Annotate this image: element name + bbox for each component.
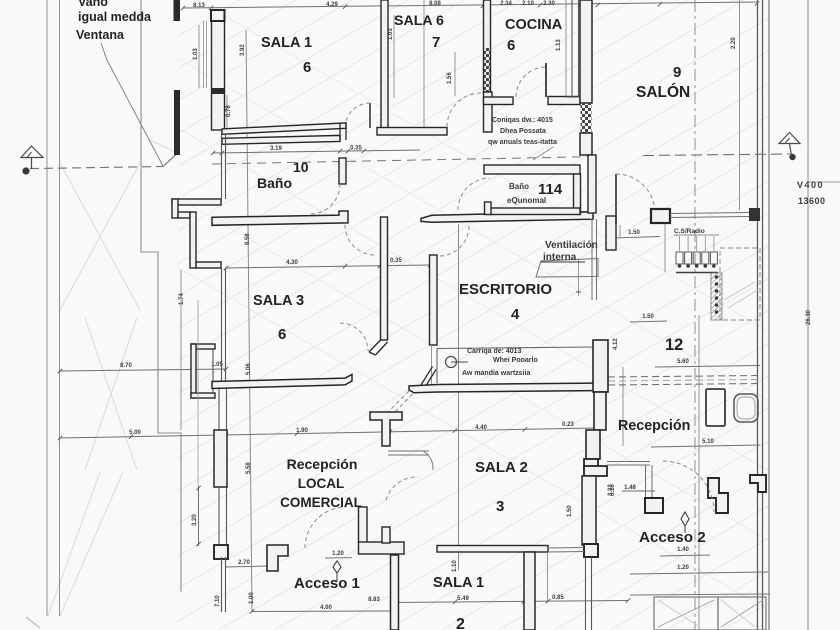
svg-text:V400: V400 (797, 180, 824, 190)
svg-text:7: 7 (432, 34, 440, 51)
svg-text:1.50: 1.50 (628, 230, 640, 236)
dashed closet rect (720, 248, 760, 320)
left niche at local corner (191, 344, 215, 349)
svg-text:Recepción: Recepción (287, 456, 358, 472)
svg-text:1.03: 1.03 (388, 28, 394, 40)
acceso1 left wall piece (267, 545, 288, 571)
G circle in storage box (446, 357, 457, 368)
acceso2 door swing (663, 461, 714, 512)
svg-text:4.12: 4.12 (613, 338, 619, 350)
bano right wall piece (339, 158, 346, 184)
bano top wall (222, 135, 340, 144)
salon door leaf and swing (615, 174, 617, 224)
svg-text:1.20: 1.20 (332, 551, 344, 557)
svg-text:Dhea Possata: Dhea Possata (500, 128, 546, 135)
cocina bottom wall right part (548, 97, 580, 105)
hall corner L block (584, 459, 598, 469)
escritorio left thin line (458, 224, 460, 570)
sala3 door swing (345, 225, 375, 255)
svg-text:8.83: 8.83 (368, 597, 380, 603)
recepcion rounded seat (734, 394, 758, 422)
bano top dimension line (213, 150, 420, 153)
salon bottom: pillar right (749, 208, 760, 221)
svg-text:0.85: 0.85 (552, 595, 564, 601)
corridor vertical wall with chamfer (381, 217, 388, 340)
bottom window boxes (654, 597, 718, 630)
sala2 top wall (409, 383, 607, 393)
svg-text:COCINA: COCINA (505, 17, 563, 33)
acceso dims (325, 557, 352, 559)
svg-text:3.33: 3.33 (608, 484, 614, 496)
svg-text:COMERCIAL: COMERCIAL (280, 495, 362, 510)
svg-text:8.70: 8.70 (120, 363, 132, 369)
svg-text:SALA 1: SALA 1 (433, 575, 484, 591)
corridor corner step below salon (606, 216, 616, 250)
svg-text:Coniqas dw.: 4015: Coniqas dw.: 4015 (492, 117, 553, 124)
acceso1 diamond (333, 561, 341, 573)
svg-text:2: 2 (456, 616, 465, 630)
recepcion right dims (655, 366, 760, 368)
mid dimension line y370 (60, 369, 226, 371)
svg-text:2.10: 2.10 (522, 1, 534, 7)
svg-text:Whei Pooarlo: Whei Pooarlo (493, 357, 538, 364)
svg-text:8.13: 8.13 (193, 3, 205, 9)
svg-text:3.92: 3.92 (240, 44, 246, 56)
svg-text:3: 3 (496, 498, 504, 515)
svg-text:1.13: 1.13 (556, 39, 562, 51)
svg-text:8.08: 8.08 (429, 1, 441, 7)
tree/section symbol right (779, 133, 800, 144)
svg-text:0.35: 0.35 (390, 258, 402, 264)
svg-text:Baño: Baño (257, 175, 292, 191)
svg-text:interna: interna (543, 252, 577, 263)
svg-text:SALA 2: SALA 2 (475, 459, 528, 476)
svg-text:1.74: 1.74 (179, 293, 185, 305)
central vertical dimension line (246, 30, 252, 612)
svg-text:Recepción: Recepción (618, 418, 690, 434)
svg-text:6: 6 (303, 59, 311, 76)
svg-text:LOCAL: LOCAL (298, 476, 345, 491)
tree/section symbol left (21, 146, 43, 158)
bottom dims (392, 601, 628, 603)
acceso2 corner jamb (750, 475, 766, 492)
svg-text:5.06: 5.06 (246, 363, 252, 375)
svg-text:Vano: Vano (78, 0, 108, 9)
svg-text:Ventilación: Ventilación (545, 240, 598, 251)
svg-text:igual medda: igual medda (78, 10, 152, 24)
right boundary verticals (739, 0, 741, 210)
yard construction lines (60, 163, 140, 310)
long dimension line y437 (60, 428, 595, 438)
svg-text:1.90: 1.90 (296, 428, 308, 434)
beam dashed lines recepcion (608, 376, 760, 378)
svg-text:10: 10 (293, 159, 309, 175)
leader line top-left (101, 43, 163, 166)
svg-text:1.03: 1.03 (193, 48, 199, 60)
acceso2 S jamb (708, 478, 728, 513)
entry door swing local (305, 507, 346, 548)
pillar below sala2 (584, 544, 598, 557)
sala2 bottom wall (437, 546, 548, 553)
cocina left wall (484, 0, 491, 92)
hall door dashed leaf (386, 391, 409, 414)
recepcion desk (706, 389, 725, 426)
hall T-jamb (370, 412, 402, 446)
svg-text:SALA 6: SALA 6 (394, 13, 444, 29)
svg-text:4.00: 4.00 (320, 605, 332, 611)
sala2 right wall (593, 340, 608, 392)
balcony bars outside (174, 0, 181, 21)
svg-text:5.58: 5.58 (246, 462, 252, 474)
sala6 door swing (447, 93, 481, 127)
svg-text:1.50: 1.50 (567, 505, 573, 517)
corridor wall upper (bano bottom) (212, 211, 348, 225)
svg-text:7.10: 7.10 (215, 595, 221, 607)
sala1 bottom wall (222, 123, 346, 134)
sala3 bottom wall pointed (212, 375, 352, 389)
svg-text:eQunomal: eQunomal (507, 196, 546, 205)
svg-text:ESCRITORIO: ESCRITORIO (459, 281, 552, 298)
svg-text:2.20: 2.20 (731, 37, 737, 49)
sala1 left exterior wall (212, 21, 225, 130)
svg-text:3.19: 3.19 (270, 146, 282, 152)
svg-text:5.49: 5.49 (457, 596, 469, 602)
svg-text:13600: 13600 (798, 196, 826, 206)
acceso2 pillar (645, 498, 663, 513)
cocina left dim vertical (454, 52, 456, 96)
svg-text:12: 12 (665, 336, 683, 354)
svg-text:2.34: 2.34 (500, 1, 512, 7)
svg-text:C.S/Radio: C.S/Radio (674, 228, 705, 235)
room 114 walls (484, 165, 580, 174)
svg-text:5.00: 5.00 (129, 430, 141, 436)
svg-text:SALA 1: SALA 1 (261, 35, 312, 51)
svg-text:2.70: 2.70 (238, 560, 250, 566)
acceso1 right wall piece (359, 507, 368, 543)
vent shaft parallelogram (536, 259, 598, 278)
left balcony niche walls (172, 199, 221, 205)
svg-text:Ventana: Ventana (76, 28, 125, 42)
cocina left wall lower corner (484, 92, 493, 132)
svg-text:0.35: 0.35 (350, 146, 362, 152)
left wall mid segment (221, 130, 223, 199)
svg-text:SALA 3: SALA 3 (253, 293, 304, 309)
svg-text:Acceso 2: Acceso 2 (639, 529, 706, 546)
svg-text:4: 4 (511, 306, 520, 323)
svg-text:2.30: 2.30 (543, 1, 555, 7)
radiator row (676, 272, 718, 274)
svg-text:0.23: 0.23 (562, 422, 574, 428)
sala6 bottom wall (377, 128, 447, 136)
site boundary verticals left (46, 0, 48, 616)
room 114 door swing (458, 178, 490, 210)
svg-text:6: 6 (507, 37, 515, 54)
escritorio window bar (430, 255, 438, 345)
bano door swing (310, 184, 340, 214)
left wall lower with window (218, 389, 220, 557)
door arc at sala3 bottom (340, 323, 368, 351)
leader to wall note (533, 147, 553, 160)
svg-text:4.29: 4.29 (326, 2, 338, 8)
corridor wall right segment pointed (421, 212, 593, 223)
sala3 top dimension line y267 (226, 265, 430, 268)
svg-text:1.20: 1.20 (677, 565, 689, 571)
salon bottom: pillar left (651, 209, 670, 223)
stairs hatch strip (711, 273, 722, 320)
left vertical dimension line 3.20 (198, 486, 200, 546)
svg-text:9: 9 (673, 64, 681, 81)
sala1 right dim vertical (393, 15, 395, 98)
svg-text:8.58: 8.58 (245, 233, 251, 245)
svg-text:26.30: 26.30 (806, 309, 812, 325)
svg-text:5.60: 5.60 (677, 359, 689, 365)
svg-text:1.00: 1.00 (249, 592, 255, 604)
chamfer to storage box (421, 367, 433, 386)
corridor door leaf arc (439, 226, 469, 256)
svg-text:4.30: 4.30 (286, 260, 298, 266)
svg-text:1.50: 1.50 (642, 314, 654, 320)
property dash-dot vertical (694, 0, 696, 630)
svg-text:6: 6 (278, 326, 286, 343)
section dash line across plan (212, 157, 600, 165)
wall sala1/sala6 (381, 0, 388, 128)
svg-text:1.56: 1.56 (447, 72, 453, 84)
svg-text:Acceso 1: Acceso 1 (294, 575, 360, 592)
left wall sala3 segment (221, 268, 223, 389)
svg-text:Carriqa de: 4013: Carriqa de: 4013 (467, 348, 522, 355)
salon left wall (580, 0, 592, 103)
svg-text:1.48: 1.48 (624, 485, 636, 491)
cocina right shaft (571, 0, 573, 97)
top dimension line (183, 2, 757, 8)
svg-text:Baño: Baño (509, 182, 529, 191)
svg-text:SALÓN: SALÓN (636, 83, 690, 101)
sala1 door leaf and swing (369, 103, 371, 128)
svg-text:qw anuals teas-itatta: qw anuals teas-itatta (488, 139, 557, 146)
acceso2 diamond (681, 512, 689, 526)
svg-text:4.40: 4.40 (475, 425, 487, 431)
svg-text:0.78: 0.78 (226, 105, 232, 117)
svg-text:5.10: 5.10 (702, 439, 714, 445)
svg-text:1.40: 1.40 (677, 547, 689, 553)
section dash line left with tree symbol (30, 167, 163, 169)
cocina door leaf and swing (545, 63, 547, 97)
front wall below acceso1 (391, 555, 399, 630)
svg-text:Aw mandia wartzsiia: Aw mandia wartzsiia (462, 370, 530, 377)
svg-text:1.10: 1.10 (452, 560, 458, 572)
storage box top line (437, 347, 595, 349)
svg-text:3.20: 3.20 (192, 514, 198, 526)
small dashed arc hall (386, 477, 418, 500)
